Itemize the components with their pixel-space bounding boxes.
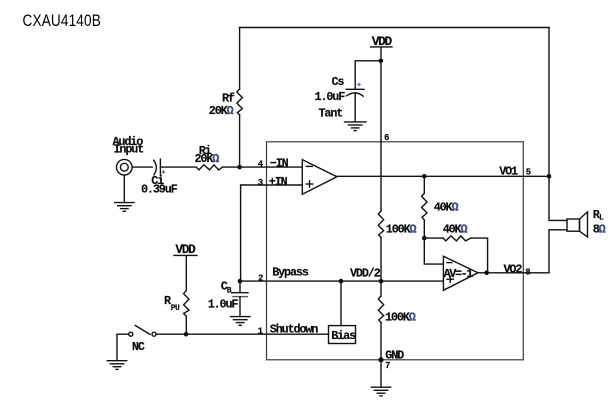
svg-text:Shutdown: Shutdown [270,323,319,337]
svg-text:1.0uF: 1.0uF [208,297,239,311]
node (VO1 / speaker) [547,174,552,179]
switch NC [129,326,156,354]
node (shutdown / RPU) [184,332,189,337]
resistor 100K (upper) [378,211,416,238]
wire (+IN net) [241,185,303,281]
wire [160,166,195,168]
wire [239,28,241,90]
internal VDD rail wire [380,142,382,211]
svg-text:40KΩ: 40KΩ [443,223,468,237]
Bias box [329,326,357,344]
svg-text:VDD/2: VDD/2 [350,266,381,280]
svg-text:PU: PU [171,304,180,313]
resistor 100K (lower) [378,296,415,325]
capacitor Cb [208,279,248,311]
wire (Bypass rail) [241,280,444,282]
op-amp U1B (AV=-1) [443,256,478,290]
ground (Cs) [345,122,367,131]
wire [340,281,342,326]
node (40K tap on VO1) [422,174,427,179]
wire [132,166,152,168]
capacitor Ci [141,159,178,196]
wire [424,237,443,239]
wire [117,334,129,361]
wire [380,323,382,360]
IC U1 body [267,142,524,360]
ground (Cb) [231,317,250,326]
node VDD/2 [379,279,384,284]
svg-text:8: 8 [525,268,530,278]
svg-text:Bypass: Bypass [272,266,309,280]
ground (NC) [107,361,126,370]
wire [549,176,567,220]
wire [423,220,425,238]
op-amp U1A [302,160,337,195]
wire [185,316,187,334]
node (Bias tap) [339,279,344,284]
resistor Rf [209,89,243,118]
svg-text:L: L [599,214,604,223]
svg-text:8Ω: 8Ω [593,222,606,236]
wire [471,238,488,273]
node (VDD / Cs) [379,59,384,64]
svg-text:CXAU4140B: CXAU4140B [23,12,101,31]
resistor 40K (upper) [422,193,459,220]
wire [423,176,425,193]
wire [549,230,567,273]
wire [239,115,241,167]
svg-text:40KΩ: 40KΩ [434,201,459,215]
svg-text:3: 3 [258,178,263,188]
label Audio Input [113,135,144,156]
node (VO2 output) [484,271,489,276]
power symbol VDD (top) [371,34,393,49]
ground (main GND) [371,387,390,396]
svg-text:Cs: Cs [332,75,345,89]
svg-text:Tant: Tant [319,107,343,121]
svg-text:0.39uF: 0.39uF [141,182,178,196]
svg-text:100KΩ: 100KΩ [386,223,417,237]
wire (right rail) [548,28,550,177]
svg-text:4: 4 [258,159,264,169]
wire [355,61,381,90]
svg-text:2: 2 [258,273,263,283]
node (40K junction) [422,236,427,241]
wire [185,256,187,291]
node GND (pin 7) [378,357,383,362]
wire [380,48,382,142]
wire [478,272,487,274]
node (Cb tap) [238,279,243,284]
svg-text:Bias: Bias [331,329,356,343]
svg-text:VO2: VO2 [504,262,523,276]
wire [380,360,382,387]
svg-text:−IN: −IN [270,157,289,171]
svg-text:7: 7 [385,361,390,371]
svg-text:NC: NC [132,340,145,354]
svg-text:100KΩ: 100KΩ [385,311,416,325]
ground (audio input) [115,203,134,212]
capacitor Cs [315,75,365,120]
svg-text:20KΩ: 20KΩ [195,152,220,166]
svg-text:1.0uF: 1.0uF [315,90,346,104]
speaker RL [567,208,606,237]
wire [123,175,125,202]
svg-text:5: 5 [526,167,531,177]
wire (VO1 net) [337,175,549,177]
power symbol VDD (pull-up) [174,242,197,257]
wire (Shutdown net) [156,333,329,335]
wire [354,94,356,122]
svg-text:B: B [227,286,232,295]
resistor Ri [195,144,223,170]
svg-text:VO1: VO1 [499,164,518,178]
svg-text:+IN: +IN [269,175,288,189]
connector J1 audio input jack [117,159,133,175]
resistor RPU [164,291,189,317]
wire [380,238,382,296]
resistor 40K (feedback) [443,223,471,241]
svg-text:Input: Input [114,143,144,157]
wire [487,272,549,274]
wire (top rail) [240,27,549,29]
wire [223,166,302,168]
wire [239,297,241,317]
node A (Ri/Rf junction) [237,165,242,170]
svg-text:20KΩ: 20KΩ [209,104,234,118]
svg-text:6: 6 [384,133,389,143]
wire (inverting input of U1B) [424,238,443,264]
